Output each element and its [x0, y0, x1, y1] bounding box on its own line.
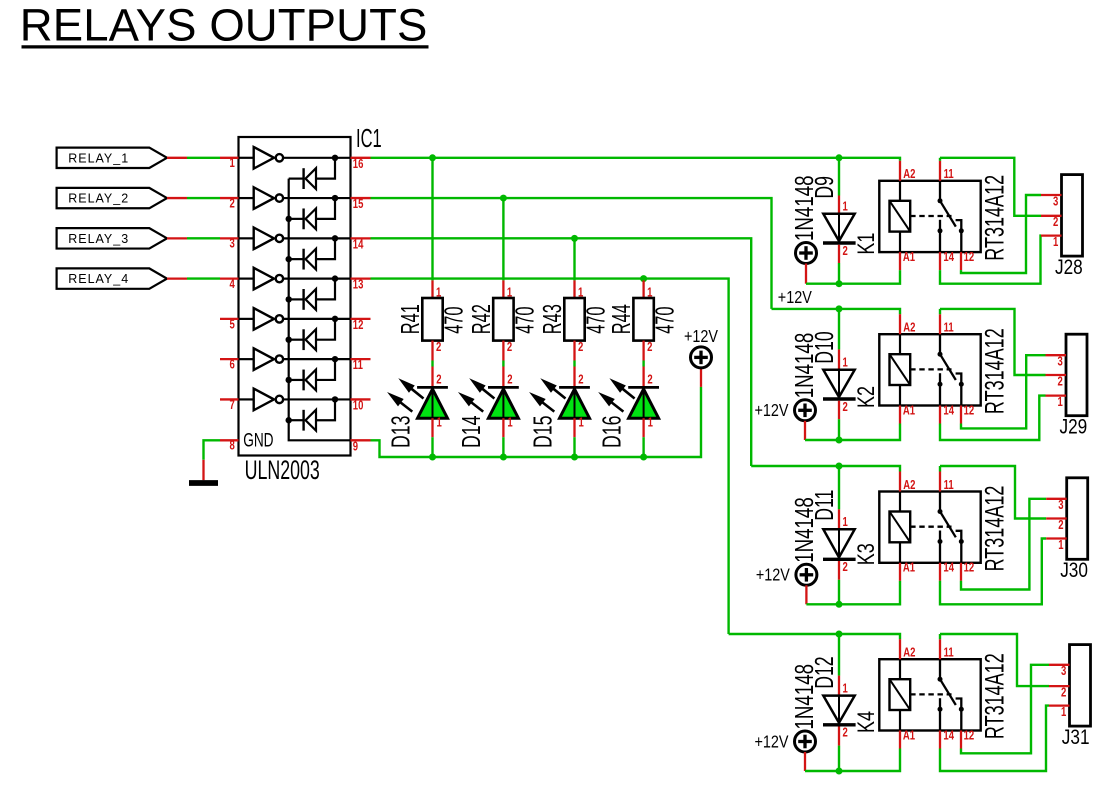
LED D14: [460, 367, 519, 438]
LED D16: [600, 367, 659, 438]
svg-text:IC1: IC1: [356, 123, 382, 153]
svg-text:2: 2: [229, 197, 234, 211]
svg-text:J29: J29: [1060, 416, 1088, 439]
R43 value label 470: [581, 306, 611, 333]
svg-text:3: 3: [1058, 499, 1063, 513]
wire K1 pin 12 to J28 pin 3: [961, 195, 1041, 273]
svg-text:RT314A12: RT314A12: [979, 328, 1009, 414]
wire net RELAY_2 from flag to IC1 pin 2: [167, 197, 220, 199]
svg-text:16: 16: [353, 158, 364, 172]
svg-text:2: 2: [843, 561, 848, 575]
net label flag RELAY_4: [57, 268, 167, 288]
svg-text:1: 1: [437, 416, 442, 430]
svg-text:2: 2: [1053, 216, 1058, 230]
internal clamp diode row 1 of IC1: [289, 168, 316, 189]
junction net 3 at D11 anode: [836, 463, 843, 470]
op-amp/driver IC U1 box IC1: [239, 137, 351, 456]
wire +12V rail of K4: [805, 749, 900, 772]
K3 name label: [854, 543, 880, 565]
junction on +12V LED rail at D15: [571, 454, 578, 461]
svg-text:14: 14: [943, 251, 954, 265]
+12V supply symbol at K3: [796, 564, 817, 604]
svg-text:14: 14: [943, 404, 954, 418]
IC1 reference label: [356, 123, 382, 153]
svg-text:11: 11: [944, 168, 954, 182]
connector J29: [1046, 334, 1088, 416]
wire K1 pin 11 to J28 pin 2: [940, 158, 1041, 216]
LED D15: [531, 367, 590, 438]
svg-text:+12V: +12V: [755, 732, 789, 752]
wire R43 to D15: [573, 361, 575, 367]
LED D13: [389, 367, 448, 438]
junction on net 3 at R43: [571, 235, 578, 242]
net label flag RELAY_1: [57, 148, 167, 168]
IC1 pin 12 (right): [351, 319, 371, 333]
IC1 pin 15 (right): [351, 198, 371, 212]
svg-text:RT314A12: RT314A12: [979, 175, 1009, 261]
svg-text:470: 470: [510, 306, 540, 333]
IC1 pin 13 (right): [351, 278, 371, 292]
wire net 3 down to R43: [573, 238, 575, 280]
svg-text:A2: A2: [903, 168, 915, 182]
svg-text:J28: J28: [1055, 257, 1083, 280]
svg-text:12: 12: [964, 251, 975, 265]
IC1 pin 7 (left): [220, 399, 239, 413]
wire K2 pin 11 to J29 pin 2: [940, 309, 1046, 375]
svg-text:RELAY_1: RELAY_1: [68, 151, 129, 165]
R44 name label: [606, 304, 636, 334]
wire R41 to D13: [431, 361, 433, 367]
svg-text:K3: K3: [854, 543, 880, 565]
wire net RELAY_1 from flag to IC1 pin 1: [167, 157, 220, 159]
svg-text:+12V: +12V: [756, 565, 790, 585]
svg-text:470: 470: [439, 306, 469, 333]
internal clamp diode row 5 of IC1: [286, 329, 317, 350]
svg-text:A1: A1: [903, 404, 915, 418]
R41 name label: [395, 304, 425, 334]
ground: [189, 460, 218, 483]
relay K3: [879, 472, 980, 581]
internal clamp diode row 3 of IC1: [286, 249, 317, 270]
wire K1 pin 14 to J28 pin 1: [940, 236, 1041, 284]
resistor R44: [633, 280, 653, 360]
svg-text:11: 11: [944, 479, 954, 493]
D14 name label: [457, 416, 486, 448]
svg-text:12: 12: [353, 319, 364, 333]
diode D10: [823, 309, 856, 440]
R44 value label 470: [650, 306, 680, 333]
svg-text:1: 1: [1058, 539, 1063, 553]
svg-text:A2: A2: [903, 646, 915, 660]
svg-text:D16: D16: [597, 416, 626, 448]
svg-text:J30: J30: [1060, 560, 1088, 583]
wire net from IC1 pin 16 (row 1) to K1 block: [371, 158, 901, 161]
IC1 pin 10 (right): [351, 399, 371, 413]
D10 value label 1N4148: [789, 333, 819, 399]
IC1 pin 9 (right): [351, 440, 371, 454]
+12V label at K2: [755, 401, 789, 421]
wire net RELAY_4 from flag to IC1 pin 4: [167, 277, 220, 279]
relay K2: [879, 314, 980, 423]
svg-text:2: 2: [578, 373, 583, 387]
svg-text:1: 1: [843, 682, 848, 696]
wire IC1 pin 9 to +12V LED rail: [371, 387, 702, 457]
svg-text:2: 2: [647, 373, 652, 387]
relay K4: [879, 639, 980, 748]
svg-text:11: 11: [353, 359, 363, 373]
svg-text:R44: R44: [606, 304, 636, 334]
svg-text:R41: R41: [395, 304, 425, 334]
svg-text:RT314A12: RT314A12: [979, 486, 1009, 572]
internal clamp diode row 2 of IC1: [286, 208, 317, 229]
resistor R41: [422, 280, 442, 360]
net label flag RELAY_3: [57, 228, 167, 248]
svg-text:7: 7: [229, 399, 234, 413]
svg-text:14: 14: [943, 562, 954, 576]
buffer channel 7 of IC1: [239, 389, 351, 421]
svg-text:2: 2: [436, 373, 441, 387]
svg-text:1: 1: [843, 516, 848, 530]
svg-text:D13: D13: [386, 416, 415, 448]
wire net 4 horizontal to K4 coil A2: [729, 634, 900, 639]
svg-text:A2: A2: [903, 321, 915, 335]
junction +12V rail at D11 cathode: [836, 601, 843, 608]
IC1 GND pin name label: [243, 429, 273, 451]
svg-text:A1: A1: [903, 562, 915, 576]
relay K1: [879, 161, 980, 270]
junction on +12V LED rail at D14: [500, 454, 507, 461]
IC1 pin 11 (right): [351, 359, 371, 373]
buffer channel 4 of IC1: [239, 268, 351, 300]
wire net 1 down to R41: [431, 158, 433, 281]
svg-text:K1: K1: [854, 233, 880, 255]
svg-text:3: 3: [1053, 195, 1058, 209]
R42 name label: [466, 304, 496, 334]
svg-text:1: 1: [229, 157, 234, 171]
D16 name label: [597, 416, 626, 448]
wire R44 to D16: [642, 361, 644, 367]
K2 value label RT314A12: [979, 328, 1009, 414]
svg-text:1: 1: [843, 356, 848, 370]
svg-text:R43: R43: [537, 304, 567, 334]
connector J28: [1041, 175, 1083, 257]
wire K2 pin 12 to J29 pin 3: [961, 355, 1046, 428]
junction net 1 at D9 anode: [836, 154, 843, 161]
wire D13 anode to +12V rail: [431, 437, 433, 457]
+12V label at K1: [778, 288, 812, 308]
svg-text:3: 3: [229, 238, 234, 252]
wire K3 pin 12 to J30 pin 3: [961, 499, 1046, 590]
svg-text:11: 11: [944, 321, 954, 335]
junction on +12V LED rail at D16: [640, 454, 647, 461]
D15 name label: [528, 416, 557, 448]
junction on net 2 at R42: [500, 195, 507, 202]
svg-text:1: 1: [1061, 706, 1066, 720]
+12V supply symbol at K2: [795, 400, 816, 440]
+12V label at K4: [755, 732, 789, 752]
svg-text:6: 6: [229, 358, 234, 372]
svg-text:3: 3: [1057, 355, 1062, 369]
IC1 pin 2 (left): [220, 197, 239, 211]
buffer channel 5 of IC1: [239, 308, 351, 340]
svg-text:2: 2: [647, 341, 652, 355]
svg-text:11: 11: [944, 646, 954, 660]
svg-text:1: 1: [1057, 396, 1062, 410]
svg-text:12: 12: [964, 404, 975, 418]
K1 value label RT314A12: [979, 175, 1009, 261]
D11 name label: [810, 490, 839, 521]
connector J30: [1046, 478, 1088, 560]
svg-text:15: 15: [353, 198, 364, 212]
resistor R43: [564, 280, 584, 360]
svg-text:5: 5: [229, 318, 234, 332]
svg-text:1: 1: [507, 416, 512, 430]
svg-text:2: 2: [1058, 519, 1063, 533]
K4 name label: [854, 711, 880, 733]
wire D14 anode to +12V rail: [502, 437, 504, 457]
svg-text:2: 2: [507, 373, 512, 387]
D13 name label: [386, 416, 415, 448]
R42 value label 470: [510, 306, 540, 333]
junction +12V rail at D12 cathode: [836, 768, 843, 775]
D9 value label 1N4148: [789, 175, 819, 241]
wire net 2 horizontal to K2 coil A2: [772, 309, 901, 314]
junction on +12V LED rail at D13: [429, 454, 436, 461]
svg-text:2: 2: [843, 245, 848, 259]
+12V label at LED rail: [684, 327, 718, 347]
svg-text:A1: A1: [903, 251, 915, 265]
wire K4 pin 12 to J31 pin 3: [961, 665, 1049, 754]
svg-text:1: 1: [843, 200, 848, 214]
svg-text:1: 1: [1053, 236, 1058, 250]
svg-text:3: 3: [1061, 665, 1066, 679]
K1 name label: [854, 233, 880, 255]
wire IC1 pin 8 to ground: [204, 440, 221, 460]
svg-text:ULN2003: ULN2003: [245, 454, 320, 485]
svg-text:8: 8: [229, 440, 234, 454]
svg-text:10: 10: [353, 399, 364, 413]
title text RELAYS OUTPUTS: [20, 0, 429, 51]
svg-text:2: 2: [843, 401, 848, 415]
junction +12V rail at D9 cathode: [836, 280, 843, 287]
connector J31: [1049, 645, 1091, 727]
svg-text:+12V: +12V: [755, 401, 789, 421]
junction net 2 at D10 anode: [836, 305, 843, 312]
internal clamp diode row 4 of IC1: [286, 289, 317, 310]
svg-text:13: 13: [353, 278, 364, 292]
junction on net 4 at R44: [640, 275, 647, 282]
svg-text:2: 2: [1061, 686, 1066, 700]
+12V label at K3: [756, 565, 790, 585]
svg-text:2: 2: [436, 341, 441, 355]
D9 name label: [810, 176, 839, 199]
svg-text:RT314A12: RT314A12: [979, 653, 1009, 739]
IC1 internal diode common bus to pin 9: [289, 179, 351, 441]
J30 name label: [1060, 560, 1088, 583]
svg-text:2: 2: [843, 727, 848, 741]
wire net 4 down to R44: [642, 279, 644, 281]
diode D9: [823, 158, 856, 284]
D11 value label 1N4148: [789, 497, 819, 563]
D12 value label 1N4148: [789, 664, 819, 730]
IC1 pin 16 (right): [351, 158, 371, 172]
wire net RELAY_3 from flag to IC1 pin 3: [167, 237, 220, 239]
K4 value label RT314A12: [979, 653, 1009, 739]
svg-text:1: 1: [648, 416, 653, 430]
R43 name label: [537, 304, 567, 334]
svg-text:2: 2: [578, 341, 583, 355]
junction net 4 at D12 anode: [836, 631, 843, 638]
svg-text:A2: A2: [903, 479, 915, 493]
J28 name label: [1055, 257, 1083, 280]
wire +12V rail of K1: [806, 270, 900, 284]
diode D12: [823, 634, 856, 771]
svg-text:14: 14: [943, 729, 954, 743]
wire net from IC1 pin 13 (row 4) to K4 block: [371, 279, 729, 634]
svg-text:470: 470: [650, 306, 680, 333]
junction +12V rail at D10 cathode: [836, 437, 843, 444]
svg-text:RELAY_3: RELAY_3: [68, 232, 129, 246]
net label flag RELAY_2: [57, 188, 167, 208]
svg-text:GND: GND: [243, 429, 273, 451]
buffer channel 3 of IC1: [239, 228, 351, 260]
D10 name label: [810, 331, 839, 363]
svg-text:RELAYS OUTPUTS: RELAYS OUTPUTS: [20, 0, 428, 51]
wire K2 pin 14 to J29 pin 1: [940, 396, 1046, 440]
buffer channel 1 of IC1: [239, 147, 351, 179]
svg-text:D15: D15: [528, 416, 557, 448]
svg-text:J31: J31: [1062, 727, 1090, 750]
svg-text:12: 12: [964, 729, 975, 743]
IC1 pin 6 (left): [220, 358, 239, 372]
IC1 pin 3 (left): [220, 238, 239, 252]
svg-text:D9: D9: [810, 176, 839, 199]
svg-text:+12V: +12V: [684, 327, 718, 347]
wire K3 pin 11 to J30 pin 2: [940, 466, 1046, 519]
IC1 value label ULN2003: [245, 454, 320, 485]
svg-text:4: 4: [229, 278, 235, 292]
svg-text:D14: D14: [457, 416, 486, 448]
svg-text:RELAY_2: RELAY_2: [68, 192, 129, 206]
wire +12V rail of K3: [806, 581, 900, 605]
buffer channel 6 of IC1: [239, 348, 351, 380]
J29 name label: [1060, 416, 1088, 439]
IC1 pin 4 (left): [220, 278, 239, 292]
diode D11: [823, 466, 856, 604]
resistor R42: [493, 280, 513, 360]
svg-text:K4: K4: [854, 711, 880, 733]
wire K3 pin 14 to J30 pin 1: [940, 539, 1046, 605]
IC1 pin 14 (right): [351, 238, 371, 252]
wire net from IC1 pin 14 (row 3) to K3 block: [371, 238, 752, 466]
svg-text:12: 12: [964, 562, 975, 576]
wire +12V rail of K2: [805, 424, 900, 441]
svg-text:9: 9: [353, 440, 358, 454]
wire K4 pin 14 to J31 pin 1: [940, 706, 1049, 771]
wire D16 anode to +12V rail: [642, 437, 644, 457]
junction on net 1 at R41: [429, 154, 436, 161]
svg-text:+12V: +12V: [778, 288, 812, 308]
wire net 2 down to R42: [502, 198, 504, 280]
+12V supply symbol at K1: [796, 243, 817, 284]
svg-text:D10: D10: [810, 331, 839, 363]
internal clamp diode row 6 of IC1: [286, 370, 317, 391]
R41 value label 470: [439, 306, 469, 333]
IC1 pin 1 (left): [220, 157, 239, 171]
D12 name label: [810, 656, 839, 688]
svg-text:1: 1: [579, 416, 584, 430]
svg-text:D11: D11: [810, 490, 839, 521]
svg-text:D12: D12: [810, 656, 839, 688]
wire D15 anode to +12V rail: [573, 437, 575, 457]
wire net 3 horizontal to K3 coil A2: [751, 466, 900, 472]
IC1 pin 5 (left): [220, 318, 239, 332]
K2 name label: [854, 386, 880, 408]
+12V supply symbol at K4: [795, 731, 816, 771]
internal clamp diode row 7 of IC1: [286, 410, 317, 431]
buffer channel 2 of IC1: [239, 187, 351, 219]
IC1 pin 8 GND (left): [220, 440, 239, 454]
wire R42 to D14: [502, 361, 504, 367]
+12V supply symbol at LED rail: [691, 347, 712, 387]
svg-text:14: 14: [353, 238, 364, 252]
svg-text:2: 2: [507, 341, 512, 355]
svg-text:RELAY_4: RELAY_4: [68, 272, 129, 286]
svg-text:2: 2: [1057, 375, 1062, 389]
K3 value label RT314A12: [979, 486, 1009, 572]
svg-text:R42: R42: [466, 304, 496, 334]
svg-text:K2: K2: [854, 386, 880, 408]
svg-text:A1: A1: [903, 729, 915, 743]
wire net from IC1 pin 15 (row 2) to K2 block: [371, 198, 772, 309]
wire K4 pin 11 to J31 pin 2: [940, 634, 1049, 686]
J31 name label: [1062, 727, 1090, 750]
